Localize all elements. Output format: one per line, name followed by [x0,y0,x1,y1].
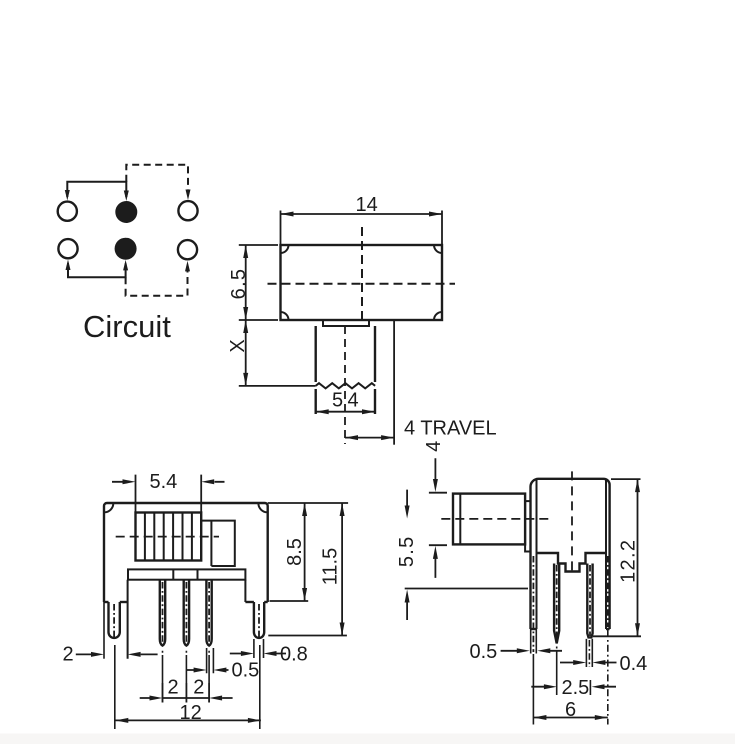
front horizontal centerline dashed [116,536,219,538]
corner post arc top-right [434,245,442,253]
side body inner right line [605,479,607,629]
pin C centerline [589,565,591,636]
SIDE VIEW [453,479,610,644]
dimension 5.5 [405,490,528,620]
side pin B [554,564,559,644]
front bottom edge right inner [245,601,254,603]
stem break zigzag [316,383,375,388]
bottom gray strip [0,734,735,744]
pin3 centerline [208,582,210,643]
svg-text:0.4: 0.4 [620,653,648,675]
left leg inner edge and extension [127,580,129,659]
svg-text:4 TRAVEL: 4 TRAVEL [404,418,497,440]
right bracket bottom [606,628,610,630]
corner post arc front top-left [104,503,113,512]
svg-text:4: 4 [423,441,445,452]
dimension 2 2 pins [140,683,233,703]
dimension 6 [533,717,607,719]
mounting peg right [254,602,264,638]
dimension 5.4 front [112,475,225,513]
dimension 0.4 [560,662,617,664]
cover slot inner line [210,521,212,566]
svg-text:14: 14 [356,194,378,216]
pin3 width extension lines [207,648,214,673]
stem sides below break [316,389,375,414]
side body bottom notch profile [537,553,607,572]
pin B centerline extension [556,647,558,696]
svg-text:0.5: 0.5 [232,660,260,682]
node pin4 bottom-left open circle [58,239,77,258]
arrowhead into pin5 [123,260,128,271]
dimension X [239,320,316,386]
base band [128,569,245,579]
node pin3 top-right open circle [178,201,197,220]
arrowhead into pin2 [124,191,129,202]
pin2 centerline extension [185,651,187,703]
corner post arc bottom-left [281,312,289,320]
front pin 2 [184,580,189,646]
arrowhead into pin3 [186,190,191,201]
arrowhead into pin1 [65,190,70,201]
dimension 2.5 [531,686,616,688]
svg-text:12.2: 12.2 [618,539,640,583]
svg-text:11.5: 11.5 [319,548,341,585]
actuator stem sides [316,326,375,382]
front pin 1 [160,580,165,646]
actuator collar [323,320,369,326]
node pin2 top-middle filled circle [115,201,137,223]
wire dashed bottom link [126,265,188,296]
dimension 4 knob height [429,458,447,578]
svg-text:2: 2 [168,677,179,699]
pin1 centerline extension [162,651,164,703]
dimension 14 [281,211,443,246]
side body outline [530,479,609,629]
dimension 4 TRAVEL [345,437,394,439]
body left edge extension [103,602,105,659]
svg-text:Circuit: Circuit [83,309,171,344]
node pin5 bottom-middle filled circle [115,238,137,260]
front bottom edge left [104,601,109,603]
stem centerline dashed [344,326,346,444]
peg left centerline extension [114,645,116,729]
centerline horizontal dashed [268,283,456,285]
svg-text:5: 5 [332,390,343,412]
side knob [453,494,525,545]
svg-text:4: 4 [348,390,359,412]
dimension 0.5 front [187,669,229,671]
side collar [525,501,530,551]
dimension 12.2 [593,479,641,636]
top view body outline [281,245,443,320]
centerline vertical dashed [361,227,363,320]
dimension 0.5 side [501,650,562,652]
left bracket centerline [532,556,534,652]
dimension 5.4 top view [316,411,375,413]
pin2 centerline [185,582,187,643]
svg-text:5.4: 5.4 [150,471,178,493]
wire solid bottom link [68,263,126,277]
right bracket centerline [607,556,609,627]
peg left centerline [113,604,115,639]
wire solid top link [67,182,126,197]
wire dashed top link [126,165,188,196]
svg-text:8.5: 8.5 [284,538,306,566]
left bracket centerline solid extension [532,654,534,725]
node pin1 top-left open circle [58,202,77,221]
dimension 6.5 [239,245,278,320]
side vertical centerline dashed [571,471,573,576]
FRONT VIEW [104,503,268,659]
travel position line [393,320,395,445]
svg-text:5.5: 5.5 [396,535,418,567]
svg-text:6: 6 [565,699,576,721]
mounting peg left [109,602,120,638]
side knob face line [459,494,461,545]
svg-text:0.8: 0.8 [280,644,308,666]
svg-text:X: X [227,339,249,352]
node pin6 bottom-right open circle [178,240,197,259]
side body inner left line [536,479,538,629]
pin1 centerline [162,582,164,643]
front bottom edge left inner [120,601,128,603]
pin3 centerline extension [208,651,210,703]
pin C width extension lines [586,639,592,667]
dimension 12 [115,719,261,721]
dimension 8.5 [268,503,348,601]
corner post arc front top-right [258,503,267,512]
dimension 0.8 [230,653,286,655]
base band divider right [197,569,199,579]
right leg inner edge [244,580,246,602]
side pin C [587,564,592,638]
side horizontal centerline dashed [441,518,550,520]
svg-text:2: 2 [63,644,74,666]
svg-text:6.5: 6.5 [228,268,250,300]
peg right centerline extension [259,645,261,729]
front bottom edge right [264,601,268,603]
corner post arc top-left [281,245,289,253]
svg-text:2.5: 2.5 [562,677,590,699]
dimension 2 left [76,653,158,655]
arrowhead into pin4 [66,260,71,271]
svg-text:2: 2 [193,677,204,699]
knob ribs [145,513,192,561]
svg-text:0.5: 0.5 [470,641,498,663]
pin C centerline extension [588,640,590,667]
corner post arc bottom-right [434,312,442,320]
right bracket centerline dashed extension [607,630,609,725]
peg right width extension lines [254,639,264,658]
dimension 11.5 [268,503,347,636]
cover slot [201,521,235,566]
peg right centerline [258,604,260,639]
front pin 3 [206,580,211,646]
svg-text:12: 12 [180,702,202,724]
base band divider left [172,569,174,579]
TOP VIEW [268,227,456,444]
pin B centerline [556,565,558,641]
left bracket width extension lines [531,629,537,654]
left bracket bottom [531,628,537,630]
front body outline [104,503,268,602]
front knob [136,513,202,561]
arrowhead into pin6 [185,261,190,272]
